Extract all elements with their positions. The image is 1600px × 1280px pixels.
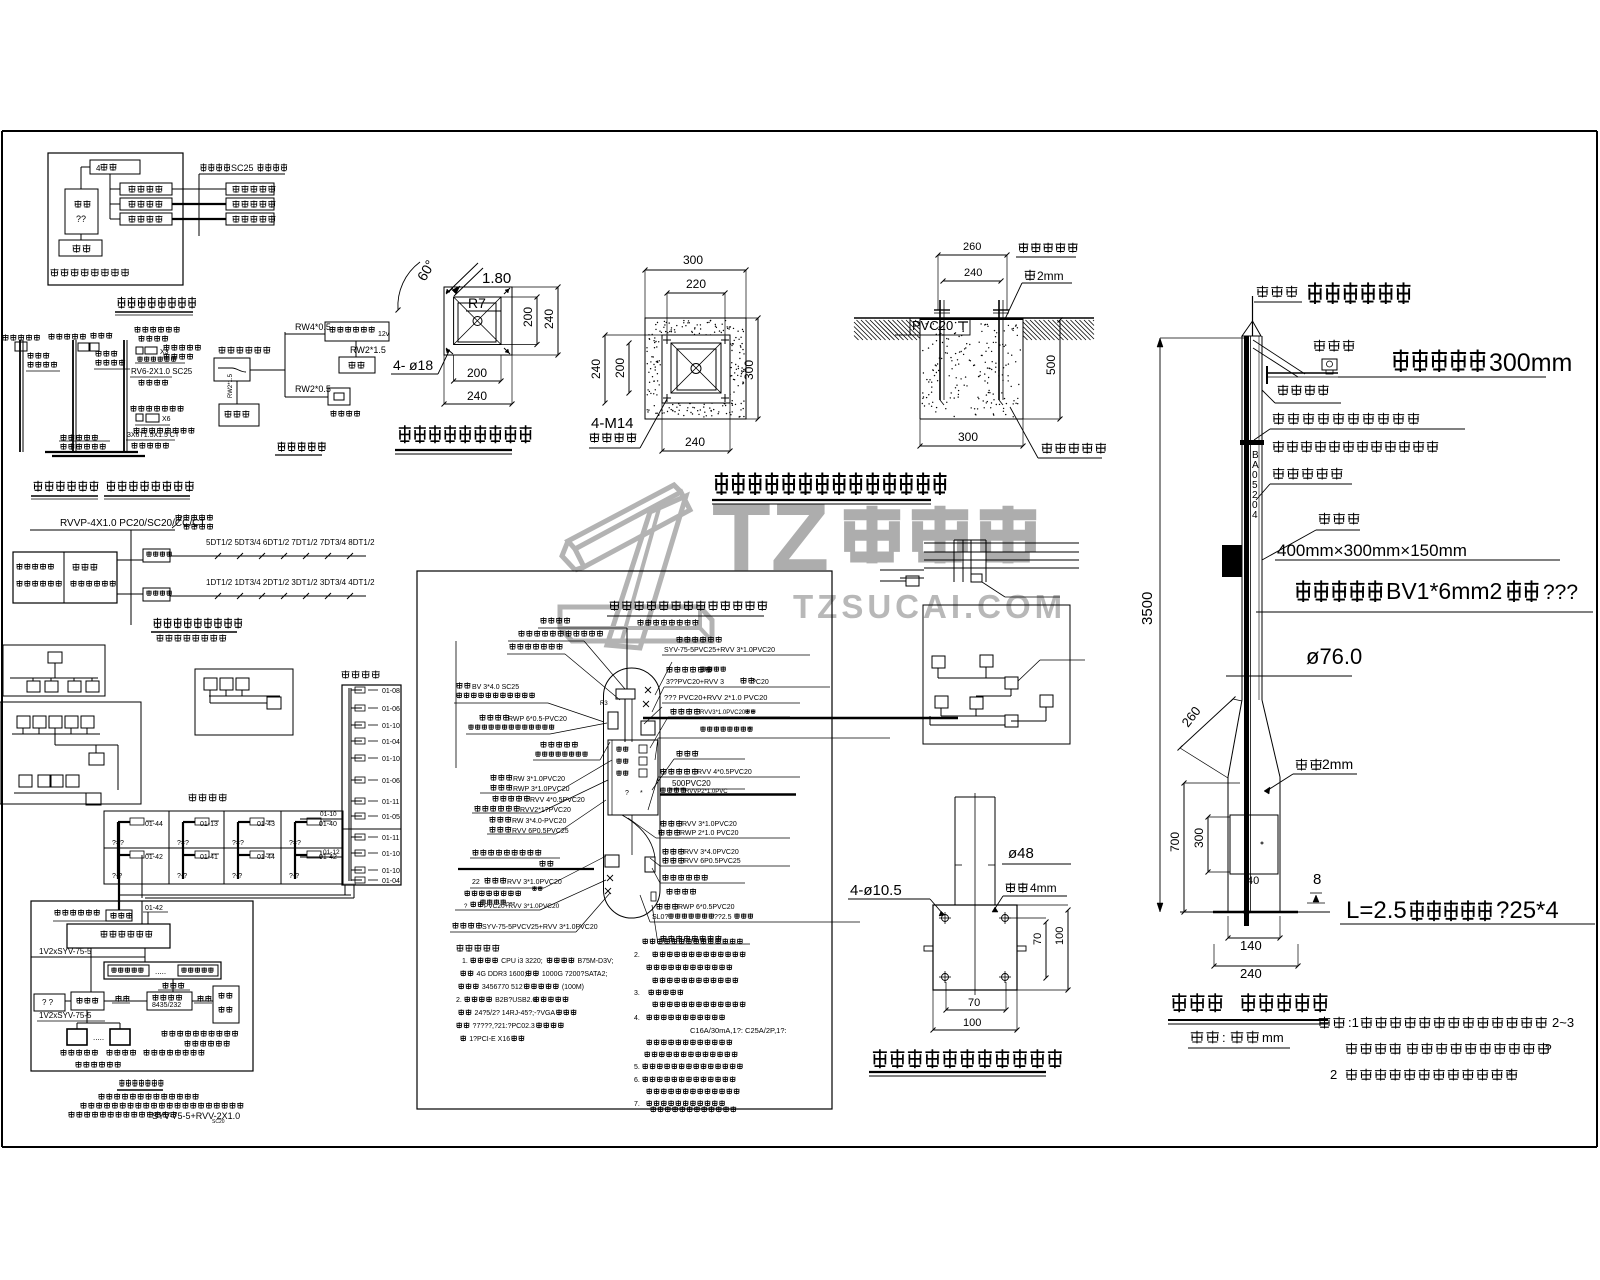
caption D elevator five-party intercom: [154, 618, 243, 629]
wire J matrix down: [31, 956, 145, 958]
wire F v: [54, 734, 56, 745]
box J5 main host: [71, 992, 104, 1010]
svg-text:240: 240: [964, 267, 982, 279]
detail D2 inner square: [671, 343, 721, 393]
svg-text:2mm: 2mm: [1037, 269, 1064, 283]
wire C riser: [250, 369, 285, 371]
wire D row2: [170, 595, 366, 597]
box J4 keyboard: [34, 994, 65, 1011]
svg-text:RWP 3*1.0PVC20: RWP 3*1.0PVC20: [513, 786, 570, 793]
svg-text:01-11: 01-11: [382, 799, 399, 806]
svg-text:6.: 6.: [634, 1077, 640, 1084]
box J2 matrix 32x7: [67, 924, 170, 948]
detail D2 diagonals: [671, 343, 721, 393]
drawing border frame: [1, 131, 3, 1147]
note J下 line1: [98, 1093, 198, 1099]
label N thickness 4mm: [1006, 883, 1028, 893]
floor cell column 1: [117, 822, 119, 879]
svg-text:ø76.0: ø76.0: [1306, 644, 1362, 669]
svg-text:01-08: 01-08: [382, 688, 400, 695]
label M monitoring point number: [1273, 468, 1343, 480]
diagram A outer box: [48, 153, 183, 285]
svg-text:(100M): (100M): [562, 984, 584, 991]
dim M 240: [1214, 965, 1298, 967]
pole B1 labels: [27, 352, 49, 358]
svg-text:°: °: [1508, 1068, 1513, 1082]
tick D row2: [281, 593, 287, 599]
tick D row2: [215, 593, 221, 599]
label P left wire group 3: [489, 816, 511, 822]
diagram J outer box: [31, 901, 253, 1071]
boxes G row: [204, 678, 217, 690]
tick D row2: [237, 593, 243, 599]
svg-text:300: 300: [1192, 828, 1206, 848]
box J9 camera n: [110, 1029, 130, 1045]
bracket N tube: [954, 797, 956, 905]
svg-text:B2B?USB2.0: B2B?USB2.0: [495, 997, 536, 1004]
detail D1 inner square: [454, 297, 501, 345]
pole B3 right riser: [123, 340, 125, 453]
dim D2 300 top: [645, 269, 746, 271]
svg-text:?-?: ?-?: [232, 873, 242, 880]
svg-text:RW 3*1.0PVC20: RW 3*1.0PVC20: [513, 776, 565, 783]
label five-party extension: [175, 514, 213, 520]
svg-text:200: 200: [613, 358, 627, 378]
svg-text:300: 300: [958, 430, 978, 444]
caption P title: [610, 601, 768, 611]
svg-text:RWP 6*0.5-PVC20: RWP 6*0.5-PVC20: [508, 716, 567, 723]
label P left wire group 1: [490, 774, 512, 780]
label M camera: [1314, 340, 1355, 352]
wire H left stub 01-12: [300, 856, 342, 858]
label P left top1: [518, 630, 603, 636]
pole B2 lower label: [60, 434, 98, 440]
equipment box M on pole: [1222, 545, 1242, 577]
pole brace diagonal: [1253, 340, 1305, 374]
connector H row 7: [351, 800, 362, 802]
svg-text:?=?: ?=?: [289, 840, 301, 847]
box O1b: [971, 574, 982, 582]
detail D1 inner square 2: [458, 303, 496, 342]
svg-text:RVV 4*0.5PVC20: RVV 4*0.5PVC20: [697, 769, 752, 776]
svg-text:RW2*0.5: RW2*0.5: [295, 384, 331, 394]
connector H row 3: [351, 724, 362, 726]
svg-text:1V2xSYV-75-5: 1V2xSYV-75-5: [39, 947, 92, 956]
pole B1 left riser: [19, 340, 21, 452]
svg-text:300: 300: [683, 253, 703, 267]
connector H row 2: [351, 707, 362, 709]
svg-text:01-11: 01-11: [382, 835, 399, 842]
svg-text:SC20: SC20: [212, 1119, 225, 1125]
svg-text:01-06: 01-06: [382, 706, 400, 713]
label P left 55: [472, 849, 541, 855]
dim D1 240 right: [557, 287, 559, 355]
diagram E outer box: [3, 645, 105, 696]
dim D2 240 left: [604, 335, 606, 403]
svg-text:500PVC20: 500PVC20: [672, 779, 711, 788]
note J line2: [80, 1102, 243, 1108]
svg-text:PVC20: PVC20: [912, 318, 953, 333]
box J3a decoder 1: [108, 965, 149, 976]
box J6 16-port switch: [147, 992, 192, 1010]
svg-text:500: 500: [1044, 355, 1058, 375]
pole B1 top box: [15, 342, 27, 351]
svg-text:8: 8: [1313, 871, 1321, 888]
svg-text:01-05: 01-05: [382, 814, 400, 821]
box F bottom: [86, 793, 101, 805]
note M 1: [1319, 1017, 1345, 1029]
label column connector line: [455, 641, 457, 768]
watermark camera icon: [575, 492, 690, 567]
label L concrete pouring: [1042, 443, 1106, 454]
svg-text:01-44: 01-44: [145, 821, 163, 828]
label P right pair 3: [662, 848, 684, 854]
svg-text:RWP 2*1.0 PVC20: RWP 2*1.0 PVC20: [680, 830, 739, 837]
svg-text:3500: 3500: [1139, 592, 1156, 625]
svg-text:240: 240: [685, 435, 705, 449]
wire A6-A9 thick: [172, 218, 226, 220]
wire J top risers: [118, 901, 120, 910]
note M 1b: [1346, 1043, 1401, 1055]
caption D1 pole bottom enlarged: [399, 425, 532, 443]
svg-text:140: 140: [1240, 938, 1262, 953]
boxes F row1: [17, 716, 30, 728]
wire D row1: [170, 555, 366, 557]
box C5 bottom: [219, 404, 259, 426]
svg-text:3??PVC20+RVV 3: 3??PVC20+RVV 3: [666, 679, 724, 686]
svg-text:SC25: SC25: [231, 163, 254, 173]
svg-text:8435/232: 8435/232: [152, 1002, 181, 1009]
label inside A bottom: [51, 269, 130, 277]
bracket N tube joint: [955, 864, 962, 866]
svg-text:400mm×300mm×150mm: 400mm×300mm×150mm: [1277, 541, 1467, 560]
label P right 3-6m: [660, 935, 721, 941]
wire J5-J6: [104, 1000, 147, 1002]
dim L 260 top: [938, 254, 1007, 256]
svg-text:RVV 6P0.5PVC25: RVV 6P0.5PVC25: [684, 858, 741, 865]
svg-text:1V2xSYV-75-5: 1V2xSYV-75-5: [39, 1011, 92, 1020]
bracket N center line: [974, 793, 976, 995]
dim M 700: [1183, 783, 1185, 912]
dim N 100 right: [1067, 910, 1069, 990]
svg-text:01-10: 01-10: [382, 723, 400, 730]
floor cell column 4: [294, 822, 296, 879]
svg-text:3456770 512: 3456770 512: [482, 984, 523, 991]
wire J5 down split: [86, 1010, 88, 1023]
boxes F row2: [19, 775, 32, 787]
connector H row 9: [351, 836, 362, 838]
connector H row 5: [351, 757, 362, 759]
labels under J8 J9: [60, 1049, 98, 1055]
camera M symbol: [1322, 359, 1337, 370]
svg-text:01-42: 01-42: [319, 854, 337, 861]
wires O2: [937, 668, 939, 678]
pole M black band: [1240, 440, 1264, 445]
label to right: [197, 995, 211, 1001]
wire D bus top: [30, 529, 175, 531]
box D2 converter top: [143, 549, 170, 562]
svg-text:RVV 4*0.5PVC20: RVV 4*0.5PVC20: [530, 797, 585, 804]
dim N 70 bottom: [946, 1009, 1006, 1011]
svg-text:220: 220: [686, 277, 706, 291]
svg-text:5DT1/2 5DT3/4 6DT1/2 7DT1/2 7D: 5DT1/2 5DT3/4 6DT1/2 7DT1/2 7DT3/4 8DT1/…: [206, 538, 375, 547]
capsule riser wire: [626, 628, 628, 689]
dim D2 220 top: [667, 292, 725, 294]
svg-text:70: 70: [1032, 933, 1044, 945]
svg-text:01-43: 01-43: [257, 821, 275, 828]
box A2 control host: [65, 189, 98, 234]
svg-text:RW2*1.5: RW2*1.5: [350, 345, 386, 355]
svg-text:RVV 3*1.0PVC20: RVV 3*1.0PVC20: [507, 879, 562, 886]
svg-text:ø18: ø18: [409, 357, 433, 373]
svg-text:BV 3*4.0 SC25: BV 3*4.0 SC25: [472, 684, 519, 691]
plate line L: [920, 318, 1023, 320]
detail D2 concrete square: [645, 318, 746, 419]
dim L 500 right: [1059, 320, 1061, 419]
note J right lines: [161, 1030, 238, 1036]
bracket N side tabs: [924, 946, 933, 951]
label P left video: [452, 922, 482, 928]
box A6 optical transceiver 3: [120, 213, 172, 225]
svg-text:RVV 3*4.0PVC20: RVV 3*4.0PVC20: [684, 849, 739, 856]
dim D2 240 bottom: [662, 450, 730, 452]
label P right RVV405: [660, 768, 698, 774]
wire A2-A3: [80, 234, 82, 240]
connector H row 12: [351, 879, 362, 881]
label P right pair 2: [660, 820, 682, 826]
leader lines P radiating: [655, 662, 672, 695]
tick D row1: [237, 553, 243, 559]
label P right video top: [676, 636, 721, 642]
box P bottom-left: [605, 855, 619, 867]
svg-text:4-: 4-: [393, 357, 406, 373]
diagram H outer box: [342, 685, 401, 885]
box A7 entrance 1: [226, 183, 274, 195]
caption P subtitle: [637, 619, 698, 625]
label M class colors: [1273, 441, 1438, 453]
svg-text:70: 70: [968, 997, 980, 1009]
label P left wire group 2: [492, 795, 530, 801]
floor cell column 3: [237, 822, 239, 879]
svg-text::: :: [1222, 1030, 1226, 1045]
svg-text:700: 700: [1168, 832, 1182, 852]
svg-text:01-41: 01-41: [200, 854, 218, 861]
label P right RWP bottom: [656, 903, 678, 909]
box P equipment cabinet: [608, 740, 658, 815]
svg-text:240: 240: [589, 359, 603, 379]
pole M lower body: [1227, 777, 1229, 912]
svg-text:24?5/2? 14RJ-45?;-?VGA: 24?5/2? 14RJ-45?;-?VGA: [475, 1010, 556, 1017]
tick D row2: [259, 593, 265, 599]
svg-text:3X6T1.5X1.5 CT: 3X6T1.5X1.5 CT: [127, 432, 180, 439]
capsule bottom small mark: [651, 892, 656, 901]
svg-text:,: ,: [1398, 1042, 1401, 1056]
svg-text:?: ?: [1545, 1042, 1552, 1056]
wire riser to entrance boxes: [198, 174, 200, 236]
box A9 entrance 3: [226, 213, 274, 225]
label L hou 2mm: [1025, 270, 1036, 281]
svg-text:240: 240: [1240, 966, 1262, 981]
box J1 lightning arrester: [106, 910, 132, 921]
label P right T3: [662, 874, 707, 880]
wire I risers to J: [118, 822, 120, 902]
svg-text:200: 200: [467, 366, 487, 380]
svg-text:2~3: 2~3: [1552, 1015, 1574, 1030]
svg-text:.....: .....: [93, 1033, 104, 1042]
dim N 70 right: [1045, 922, 1047, 978]
connector H row 10: [351, 852, 362, 854]
wire A5-A8 thick: [172, 203, 226, 205]
svg-text:.....: .....: [155, 967, 166, 976]
wire D1 right: [117, 559, 143, 561]
label under C4: [330, 410, 360, 416]
tick D row1: [215, 553, 221, 559]
label RS485: [162, 982, 184, 988]
dim D1 200 bottom: [454, 380, 501, 382]
ground hatch right: [1023, 320, 1094, 340]
boxes E row: [27, 681, 40, 692]
diagram G outer box: [195, 669, 293, 735]
caption lightning arrester product: [1308, 282, 1411, 304]
caption M lightning down lead: [1296, 580, 1383, 602]
svg-text:??2.5: ??2.5: [714, 914, 732, 921]
svg-text:240: 240: [467, 389, 487, 403]
floor cell column 2: [182, 822, 184, 879]
box F mid right: [89, 753, 104, 765]
pole M door: [1230, 815, 1278, 874]
svg-text:300: 300: [742, 360, 756, 380]
svg-text:100: 100: [1054, 927, 1066, 945]
tick D row1: [281, 553, 287, 559]
svg-text:01-44: 01-44: [257, 854, 275, 861]
svg-text:X6: X6: [162, 416, 171, 423]
capsule inner arc: [622, 815, 655, 858]
svg-text:01-10: 01-10: [320, 811, 337, 818]
svg-text:?-?: ?-?: [289, 873, 299, 880]
label lightning needle: [1257, 286, 1298, 298]
caption B1 monitoring system diagram: [34, 481, 99, 492]
label M equipment box: [1319, 513, 1360, 525]
svg-text:??? PVC20+RVV 2*1.0 PVC20: ??? PVC20+RVV 2*1.0 PVC20: [664, 693, 767, 702]
svg-text:? ?: ? ?: [42, 998, 54, 1007]
svg-text:22: 22: [472, 879, 480, 886]
wire H bottom exits: [344, 885, 346, 895]
diagram P outer box: [417, 571, 832, 1109]
leader O2: [1018, 660, 1040, 681]
svg-text:??: ??: [76, 214, 86, 224]
caption D2 camera pole base embedded: [715, 473, 947, 496]
detail D2 inner square 2: [677, 349, 716, 390]
svg-text:01-42: 01-42: [145, 905, 163, 912]
label P right small 1: [670, 708, 700, 714]
ground M: [1213, 911, 1298, 913]
tick D row2: [303, 593, 309, 599]
tick D row1: [325, 553, 331, 559]
label M unit mm: [1191, 1031, 1219, 1044]
capsule x marks: [645, 687, 651, 693]
ground rod M: [1244, 700, 1249, 926]
svg-text:01-04: 01-04: [382, 878, 400, 885]
box C4 door station: [328, 388, 350, 405]
box A8 entrance 2: [226, 198, 274, 210]
dim D1 240 bottom: [444, 403, 512, 405]
connector H row 1: [351, 689, 362, 691]
box E1: [48, 652, 62, 663]
pole B3 top device: [136, 347, 143, 354]
caption N camera bracket install enlarged: [873, 1049, 1062, 1068]
caption A construction site management system: [118, 297, 197, 309]
svg-text:?=?: ?=?: [177, 840, 189, 847]
svg-text::1: :1: [1348, 1015, 1359, 1030]
svg-text:?=?: ?=?: [232, 840, 244, 847]
svg-text:?25*4: ?25*4: [1496, 897, 1559, 924]
boxes O2: [932, 656, 945, 668]
caption H main monitoring part: [342, 671, 380, 679]
dim D1 leader 1.80: [449, 263, 478, 291]
pole M body mid lines: [1258, 336, 1260, 700]
leader M crossarm 300mm: [1338, 376, 1546, 378]
box P top connector: [616, 689, 635, 699]
svg-text:4: 4: [1252, 510, 1258, 521]
bolt D1 bottom-left: [446, 348, 453, 354]
bracket N plate: [933, 905, 1017, 990]
connector H row 6: [351, 779, 362, 781]
svg-text:1DT1/2 1DT3/4 2DT1/2 3DT1/2 3D: 1DT1/2 1DT3/4 2DT1/2 3DT1/2 3DT3/4 4DT1/…: [206, 578, 375, 587]
squares P inside: [639, 745, 647, 753]
svg-text:ø48: ø48: [1008, 845, 1034, 862]
dim N 100 bottom: [933, 1029, 1017, 1031]
svg-text:300mm: 300mm: [1489, 349, 1572, 377]
box P bottom-right: [645, 857, 655, 872]
svg-text:?: ?: [625, 790, 629, 797]
caption I floor part: [189, 794, 227, 802]
svg-text:R3: R3: [600, 701, 608, 707]
pole M body upper: [1241, 336, 1243, 700]
diagram O2 outer box: [923, 605, 1070, 744]
svg-text:RW 3*4.0-PVC20: RW 3*4.0-PVC20: [512, 818, 566, 825]
label P right fan: [676, 750, 698, 756]
svg-text:260: 260: [963, 241, 981, 253]
svg-text:1.: 1.: [462, 958, 468, 965]
label P left top2: [509, 643, 562, 649]
svg-text:?-?: ?-?: [112, 873, 122, 880]
svg-text:2.: 2.: [456, 997, 462, 1004]
bolt D1 bottom-right: [504, 348, 510, 354]
bus H: [348, 688, 350, 881]
pole B2 camera box: [78, 343, 89, 351]
dim L 240: [943, 280, 1001, 282]
pole B2 leader texts: [95, 350, 117, 356]
diagram F outer box: [0, 702, 141, 804]
caption B2 intercom system diagram: [107, 481, 194, 492]
svg-text:RV6-2X1.0 SC25: RV6-2X1.0 SC25: [131, 367, 193, 376]
schematic O1 left branch: [880, 569, 924, 571]
svg-text:R7: R7: [468, 295, 486, 311]
svg-text:RVV 3*1.0PVC20: RVV 3*1.0PVC20: [682, 821, 737, 828]
label M thickness 2mm: [1296, 759, 1322, 771]
svg-text:1.80: 1.80: [482, 270, 511, 287]
caption M crossarm level 300mm: [1393, 350, 1485, 373]
schematic O1 leader: [982, 582, 1005, 597]
svg-text:01-13: 01-13: [200, 821, 218, 828]
svg-text:RVVP-4X1.0 PC20/SC20/CC/CT: RVVP-4X1.0 PC20/SC20/CC/CT: [60, 518, 205, 529]
box O1a: [906, 576, 919, 586]
svg-text:RVV3*1.0PVC20: RVV3*1.0PVC20: [700, 710, 746, 716]
anchor bolt L left: [939, 300, 941, 400]
bolt D1 top-right: [504, 288, 510, 294]
detail D1 diagonals: [454, 297, 501, 345]
wire C2 down: [355, 341, 357, 357]
